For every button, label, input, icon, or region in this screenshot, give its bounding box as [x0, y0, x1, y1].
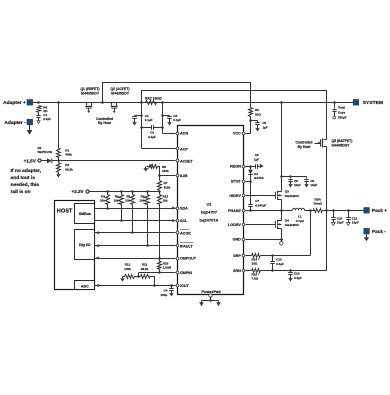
potentiometer R8 100k — [145, 164, 169, 176]
resistor RSR 10mohm — [313, 197, 322, 212]
svg-text:10µF: 10µF — [352, 221, 359, 225]
svg-text:bq24707A: bq24707A — [200, 217, 219, 222]
transistor Q4 Sia412DN — [275, 219, 298, 229]
block ADC — [75, 281, 95, 290]
node ILIM — [158, 174, 161, 177]
diode D1 BAT54 — [248, 167, 264, 182]
pin PowerPad — [201, 289, 221, 297]
wire SRN line — [246, 270, 252, 272]
svg-text:ACOK: ACOK — [180, 231, 191, 235]
svg-text:L1: L1 — [298, 214, 302, 218]
svg-text:ILIM: ILIM — [180, 174, 187, 178]
svg-text:BAT54: BAT54 — [254, 176, 264, 180]
svg-text:10Ω: 10Ω — [255, 112, 261, 116]
svg-text:SCL: SCL — [180, 219, 188, 223]
wire SCL — [95, 219, 176, 222]
ground (C5) — [255, 127, 259, 132]
resistor R15 7.5ohm — [252, 269, 261, 281]
wire SRP line — [246, 255, 252, 257]
capacitor C10 10uF — [331, 211, 344, 225]
node R1 rail tap — [57, 101, 60, 104]
block HOST — [55, 201, 95, 290]
label controlled by host (Q5) — [296, 141, 313, 149]
svg-text:1µF: 1µF — [254, 158, 259, 162]
svg-text:ADC: ADC — [81, 284, 89, 288]
svg-text:BTST: BTST — [231, 180, 241, 184]
transistor Q2 ACFET — [110, 87, 129, 113]
svg-text:LODRV: LODRV — [228, 223, 241, 227]
diode D2 RB751V40 — [38, 146, 53, 163]
svg-text:10k: 10k — [100, 199, 105, 203]
svg-text:ACP: ACP — [180, 148, 188, 152]
svg-text:Pack -: Pack - — [372, 229, 386, 234]
capacitor 2.2uF — [36, 113, 51, 121]
svg-text:0.1µF: 0.1µF — [173, 118, 181, 122]
svg-text:4.7µH: 4.7µH — [296, 219, 304, 223]
wire Q4 source — [281, 229, 283, 240]
svg-text:0.1µF: 0.1µF — [276, 262, 284, 266]
svg-text:PowerPad: PowerPad — [201, 289, 221, 294]
node C10 tap — [332, 209, 335, 212]
node R5-ACOK — [131, 231, 134, 234]
ground (C10) — [332, 222, 336, 225]
svg-text:SRP: SRP — [233, 254, 241, 258]
resistor R3 10k — [100, 192, 110, 209]
resistor R6 10k — [139, 192, 149, 246]
svg-text:10mΩ: 10mΩ — [313, 202, 322, 206]
connector SYSTEM — [353, 100, 383, 107]
svg-text:RB751V40: RB751V40 — [38, 150, 53, 154]
node C7-PHASE — [249, 209, 252, 212]
ground (C8) — [288, 183, 292, 188]
svg-text:66.5k: 66.5k — [65, 167, 73, 171]
svg-text:REGN: REGN — [230, 165, 241, 169]
ground (C6) right — [260, 164, 264, 168]
svg-text:CMPIN: CMPIN — [180, 271, 192, 275]
node ACDET divider — [57, 159, 60, 162]
svg-text:1µF: 1µF — [262, 125, 267, 129]
wire Q5 to pack node — [326, 147, 328, 211]
capacitor C6 1uF — [251, 153, 260, 169]
svg-text:+1.5V: +1.5V — [24, 159, 37, 164]
capacitor C9 10uF — [304, 177, 317, 188]
node Q1-Q2 common — [101, 101, 104, 104]
block SMBus — [75, 204, 95, 224]
node REGN — [249, 165, 252, 168]
wire Q3 source — [281, 200, 283, 211]
wire R1-node — [58, 158, 60, 161]
svg-text:1.01M: 1.01M — [163, 266, 172, 270]
node SRP tap — [309, 209, 312, 212]
svg-text:100k: 100k — [162, 169, 169, 173]
node Q3 rail — [280, 101, 283, 104]
transistor Q3 Sia412DN — [275, 190, 298, 200]
svg-text:Total: Total — [338, 106, 345, 110]
svg-text:Pack +: Pack + — [372, 208, 387, 213]
node C13 bottom — [271, 269, 274, 272]
node BTST — [249, 180, 252, 183]
wire BTST — [246, 181, 251, 183]
svg-text:10Ω: 10Ω — [252, 262, 258, 266]
connector Adapter+ — [3, 100, 33, 107]
wire ACOK line — [95, 231, 176, 234]
wire C8C9 branch — [282, 176, 307, 178]
transistor Q1 RBFET — [80, 87, 99, 113]
svg-text:+3.3V: +3.3V — [71, 189, 84, 194]
svg-text:Q3: Q3 — [285, 190, 289, 194]
capacitor Total Csys 330uF — [332, 103, 346, 120]
svg-text:U1: U1 — [206, 202, 212, 207]
wire ACDET line — [59, 160, 176, 162]
ground (Pack-) — [364, 235, 369, 242]
node C4 tap — [170, 284, 173, 287]
wire L1 to RSR — [305, 210, 314, 212]
node C13 top — [271, 254, 274, 257]
capacitor C13 0.1uF — [270, 256, 284, 271]
ground (R2) — [56, 173, 60, 178]
ground (Adapter-) — [27, 125, 33, 135]
node R4-SCL — [120, 219, 123, 222]
svg-text:0.1µF: 0.1µF — [148, 135, 156, 139]
svg-text:430k: 430k — [65, 153, 72, 157]
resistor R5 10k pullup — [125, 192, 134, 233]
svg-text:0.047µF: 0.047µF — [255, 204, 266, 208]
capacitor C3 0.1uF — [163, 114, 182, 122]
connector Adapter- — [4, 119, 32, 126]
wire +1.5V to D2 — [42, 160, 48, 162]
resistor R7 316k — [158, 176, 171, 192]
op-amp U1 bq24707 box — [178, 126, 244, 295]
svg-text:Sia412DN: Sia412DN — [285, 223, 299, 227]
resistor R11 28.2k — [139, 263, 155, 286]
wire D2 to node — [52, 160, 59, 162]
ground (C3) — [167, 121, 171, 126]
block Dig I/O — [75, 230, 95, 260]
wire +3.3V rail — [90, 191, 160, 193]
capacitor C1 0.1uF — [132, 114, 152, 122]
resistor R4 10k — [114, 192, 124, 221]
svg-text:needed, this: needed, this — [11, 182, 40, 188]
resistor R10 1.01M — [158, 259, 172, 273]
wire VCC pin — [246, 121, 251, 134]
node C8 branch — [280, 175, 283, 178]
svg-text:rail is on: rail is on — [11, 189, 31, 195]
node R11-IOUT — [153, 284, 156, 287]
wire PowerPad gnd — [202, 297, 219, 302]
node R6-IFAULT — [146, 244, 149, 247]
node C16 tap — [289, 269, 292, 272]
svg-text:bq24707: bq24707 — [201, 210, 218, 215]
transistor Q5 BATFET — [321, 139, 353, 148]
svg-text:SMBus: SMBus — [79, 212, 91, 216]
node PGND point — [280, 242, 283, 245]
svg-text:CMPOUT: CMPOUT — [180, 257, 197, 261]
node R4 tap — [120, 190, 123, 193]
node C2 left — [140, 126, 143, 129]
svg-text:10µF: 10µF — [294, 183, 301, 187]
wire SRN to riser — [261, 211, 327, 271]
svg-text:10µF: 10µF — [337, 221, 344, 225]
svg-text:IFAULT: IFAULT — [180, 244, 193, 248]
svg-text:ACDET: ACDET — [180, 159, 193, 163]
ground (C16) — [288, 277, 292, 282]
ground (C1) — [132, 121, 136, 126]
node R3 tap — [106, 190, 109, 193]
node RAC left — [140, 101, 143, 104]
ground (R8) — [143, 167, 147, 172]
wire PHASE line — [246, 210, 293, 212]
wire R1 riser — [58, 103, 60, 149]
svg-text:SDA: SDA — [180, 207, 188, 211]
ground (C4) — [169, 292, 173, 297]
node C11 tap — [347, 209, 350, 212]
svg-text:10k: 10k — [163, 199, 168, 203]
svg-text:SYSTEM: SYSTEM — [363, 100, 383, 106]
svg-text:7.5Ω: 7.5Ω — [252, 277, 259, 281]
node R3-SDA — [106, 207, 109, 210]
svg-text:Q4: Q4 — [285, 219, 289, 223]
svg-text:Si4435DDY: Si4435DDY — [81, 91, 100, 95]
wire ILIM line — [160, 175, 176, 177]
svg-text:SRN: SRN — [233, 269, 241, 273]
wire SRP to riser — [261, 211, 311, 256]
wire REGN — [246, 166, 251, 168]
ground (C11) — [347, 222, 351, 225]
node C2 right — [161, 126, 164, 129]
capacitor C11 10uF — [346, 211, 359, 225]
capacitor C4 100p — [161, 286, 174, 297]
pins U1 right — [228, 132, 245, 273]
node C8 tap — [289, 175, 292, 178]
svg-text:316k: 316k — [164, 185, 171, 189]
svg-text:Adapter +: Adapter + — [3, 100, 26, 106]
wire CMPIN line — [139, 273, 176, 277]
svg-text:VCC: VCC — [233, 132, 241, 136]
capacitor C16 0.1uF — [288, 271, 302, 280]
svg-text:RAC 10mΩ: RAC 10mΩ — [145, 97, 162, 101]
ground (C9) — [304, 183, 308, 188]
wire LODRV — [246, 224, 276, 226]
resistor R5 2ohm — [37, 105, 48, 113]
svg-text:PHASE: PHASE — [228, 209, 241, 213]
svg-text:10k: 10k — [139, 199, 144, 203]
wire IFAULT line — [95, 244, 176, 247]
wire HIDRV — [246, 195, 276, 197]
terminal +1.5V — [24, 159, 41, 164]
resistor R1 430k — [57, 149, 61, 158]
capacitor C8 10uF — [288, 177, 301, 188]
svg-text:IOUT: IOUT — [180, 284, 190, 288]
wire SDA — [95, 207, 176, 210]
svg-text:Dig I/O: Dig I/O — [79, 243, 91, 247]
svg-text:10µF: 10µF — [310, 183, 317, 187]
svg-text:0.1µF: 0.1µF — [294, 276, 302, 280]
wire Q4 source stub — [281, 240, 283, 242]
svg-text:10k: 10k — [125, 199, 130, 203]
wire CMPOUT line — [95, 257, 176, 260]
node Csys tap — [333, 101, 336, 104]
svg-text:ACN: ACN — [180, 132, 188, 136]
svg-text:Adapter -: Adapter - — [4, 120, 26, 126]
svg-text:HIDRV: HIDRV — [229, 194, 241, 198]
wire RSR to pack — [323, 210, 364, 212]
node C1 tap — [140, 114, 143, 117]
svg-text:Controlled: Controlled — [96, 117, 113, 121]
label R1 — [65, 148, 72, 156]
wire VCC bypass top — [103, 83, 251, 108]
resistor R14 10ohm — [252, 254, 261, 266]
wire Q4 drain — [281, 211, 283, 221]
ground (R12) — [120, 277, 124, 282]
capacitor C5 1uF — [251, 121, 268, 130]
node CMPIN divider — [137, 275, 140, 278]
node VCC filter — [249, 119, 252, 122]
svg-text:If no adapter,: If no adapter, — [11, 168, 42, 174]
resistor R12 100k — [124, 263, 138, 279]
svg-text:Controlled: Controlled — [296, 141, 313, 145]
pins U1 left — [176, 132, 197, 289]
svg-text:HOST: HOST — [57, 208, 73, 214]
node R5 tap — [131, 190, 134, 193]
svg-text:0.1µF: 0.1µF — [145, 118, 153, 122]
wire ACP tap — [141, 103, 143, 149]
node GND-Q4 — [280, 238, 283, 241]
ground (snubber) — [37, 120, 40, 124]
capacitor C7 0.047uF — [248, 182, 266, 211]
wire ACP to pin — [142, 148, 176, 150]
svg-text:100p: 100p — [161, 293, 168, 297]
svg-text:330µF: 330µF — [338, 116, 347, 120]
connector Pack- — [364, 228, 386, 234]
wire R9 to VCC node — [250, 117, 252, 121]
svg-text:By Host: By Host — [98, 121, 112, 125]
svg-text:GND: GND — [233, 238, 242, 242]
node PHASE-FET — [280, 209, 283, 212]
svg-text:Si4435DDY: Si4435DDY — [332, 143, 351, 147]
terminal +3.3V — [71, 189, 89, 194]
wire GND line — [246, 239, 282, 241]
node C3 tap — [161, 114, 164, 117]
ground (PowerPad left) — [199, 301, 204, 307]
node R7-R13 — [158, 190, 161, 193]
capacitor C2 0.1uF — [142, 125, 163, 139]
resistor R13 10k — [158, 192, 169, 259]
wire IOUT line — [95, 284, 176, 287]
resistor RAC 10mohm — [145, 97, 162, 105]
resistor R9 10ohm — [249, 108, 262, 117]
svg-text:100k: 100k — [124, 267, 131, 271]
svg-text:Csys: Csys — [338, 111, 346, 115]
svg-text:and Iout is: and Iout is — [11, 175, 36, 181]
wire Q5 gate arrow — [315, 142, 322, 145]
svg-text:10k: 10k — [114, 199, 119, 203]
svg-text:By Host: By Host — [298, 145, 312, 149]
node Q5-SRN — [325, 209, 328, 212]
svg-text:Si4435DDY: Si4435DDY — [111, 91, 130, 95]
node RAC right — [161, 101, 164, 104]
connector Pack+ — [364, 208, 387, 214]
svg-text:Q5 (BATFET): Q5 (BATFET) — [332, 139, 353, 143]
node R6 tap — [146, 190, 149, 193]
note text — [11, 168, 42, 195]
node snubber tap — [37, 101, 40, 104]
wire ACN to pin — [163, 133, 176, 135]
resistor R2 66.5k — [57, 161, 74, 173]
wire adapter-battery bypass — [142, 91, 327, 140]
node R13-CMPOUT — [158, 257, 161, 260]
label U1 — [200, 202, 219, 223]
svg-text:2.2µF: 2.2µF — [43, 117, 51, 121]
wire main input rail — [33, 102, 354, 104]
wire ACN tap — [162, 103, 164, 134]
label controlled by host (Q1 Q2) — [96, 117, 113, 125]
inductor L1 4.7uH — [293, 208, 305, 223]
ground (PowerPad right) — [216, 301, 221, 307]
node R10-CMPIN — [158, 271, 161, 274]
svg-text:Sia412DN: Sia412DN — [285, 194, 299, 198]
wire Q3 drain riser — [281, 103, 283, 192]
svg-text:28.2k: 28.2k — [141, 267, 149, 271]
